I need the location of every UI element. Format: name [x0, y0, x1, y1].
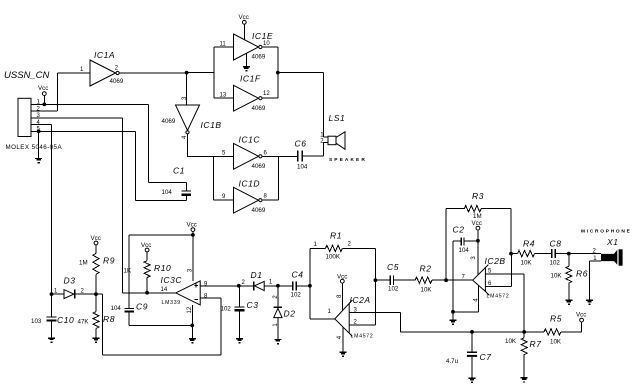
- amplifier IC2A: [310, 286, 374, 340]
- node junction pin5/ground: [37, 129, 41, 133]
- capacitor C1: [136, 104, 192, 200]
- ground R6: [565, 300, 572, 304]
- svg-text:C1: C1: [173, 166, 185, 176]
- svg-text:IC1B: IC1B: [201, 120, 222, 130]
- svg-text:104: 104: [459, 247, 470, 254]
- diode D1: [239, 270, 278, 291]
- svg-text:10K: 10K: [505, 338, 517, 345]
- wire bottom rail IC2A pin3 net: [401, 331, 544, 333]
- node junction C5/R1: [374, 278, 378, 282]
- resistor R2: [415, 263, 446, 293]
- node junction IC3C Vcc: [191, 233, 195, 237]
- inverter IC1F: [214, 74, 271, 113]
- wire IC3C pin3 lead: [192, 235, 194, 281]
- svg-text:X1: X1: [606, 237, 619, 247]
- svg-text:100K: 100K: [326, 253, 341, 260]
- resistor R7: [505, 332, 541, 378]
- ground C7: [469, 378, 476, 382]
- node junction C4/R1/IC2A: [308, 284, 312, 288]
- node junction R7/pin5: [522, 330, 526, 334]
- node junction IC1A out / IC1B in: [185, 71, 189, 75]
- capacitor C5: [375, 262, 415, 293]
- ground IC3C: [189, 325, 196, 342]
- wire R1 right to C5 node and IC2A pin2: [374, 248, 376, 325]
- svg-text:MOLEX 5046-05A: MOLEX 5046-05A: [6, 144, 63, 151]
- inverter IC1E: [214, 31, 273, 61]
- svg-text:4069: 4069: [110, 78, 124, 85]
- svg-text:4069: 4069: [252, 163, 266, 170]
- ground IC2A: [337, 327, 347, 356]
- node junction C2/Vcc: [476, 239, 480, 243]
- svg-text:Vcc: Vcc: [239, 14, 249, 21]
- svg-text:IC2A: IC2A: [350, 295, 371, 305]
- svg-text:MICROPHONE: MICROPHONE: [581, 229, 632, 235]
- wire input bus IC1E/IC1F: [213, 47, 215, 98]
- node junction pin4/D3: [50, 292, 54, 296]
- svg-text:104: 104: [111, 305, 122, 312]
- power Vcc IC3C pin3: [187, 221, 197, 235]
- microphone X1: [569, 229, 632, 300]
- inverter IC1C: [222, 135, 268, 171]
- node junction C8/R6/X1: [567, 252, 571, 256]
- svg-text:102: 102: [291, 291, 302, 298]
- svg-text:C10: C10: [57, 315, 74, 325]
- wire pin5 to C1 bottom: [31, 131, 136, 200]
- svg-text:10K: 10K: [521, 260, 533, 267]
- ground C10: [48, 338, 55, 342]
- svg-text:C2: C2: [453, 224, 465, 234]
- power Vcc connector pin1: [38, 85, 48, 105]
- svg-text:11: 11: [220, 41, 227, 47]
- ground IC2B: [452, 312, 454, 320]
- node junction pin1/Vcc: [42, 103, 46, 107]
- power Vcc IC2B: [472, 220, 482, 241]
- wire pin3 to IC3C output: [31, 118, 123, 293]
- svg-text:10K: 10K: [421, 286, 433, 293]
- svg-text:C9: C9: [136, 302, 148, 312]
- svg-text:D2: D2: [284, 309, 296, 319]
- ground R7: [521, 378, 528, 382]
- svg-text:13: 13: [220, 92, 227, 98]
- svg-text:4069: 4069: [252, 105, 266, 112]
- node junction C7: [470, 330, 474, 334]
- amplifier IC2B: [471, 256, 509, 302]
- resistor R8: [78, 294, 115, 338]
- wire pin1 Vcc rail to C1: [31, 103, 148, 105]
- svg-text:IC1A: IC1A: [94, 50, 115, 60]
- svg-text:C3: C3: [247, 300, 259, 310]
- resistor R3: [446, 191, 511, 280]
- svg-text:R6: R6: [576, 268, 588, 278]
- wire IC2A pin3 to bottom rail: [349, 313, 401, 332]
- svg-text:C4: C4: [292, 269, 304, 279]
- svg-text:4.7u: 4.7u: [446, 358, 459, 365]
- ground X1: [586, 300, 593, 304]
- svg-text:C8: C8: [550, 238, 562, 248]
- ground IC1E: [243, 53, 250, 71]
- wire branch to IC1D input: [213, 156, 233, 200]
- node junction pin9/C3: [237, 284, 241, 288]
- svg-text:LM4572: LM4572: [351, 333, 374, 339]
- svg-text:IC3C: IC3C: [161, 275, 183, 285]
- power Vcc IC2A: [337, 273, 347, 310]
- power Vcc IC1E: [239, 14, 249, 40]
- comparator IC3C LM339: [161, 275, 201, 306]
- capacitor C4: [278, 269, 310, 298]
- svg-text:Vcc: Vcc: [38, 85, 48, 92]
- capacitor C2: [453, 224, 478, 311]
- inverter IC1B: [162, 73, 222, 139]
- resistor R9: [79, 235, 115, 294]
- svg-text:10: 10: [263, 41, 270, 47]
- svg-text:D1: D1: [251, 270, 263, 280]
- resistor R4: [511, 238, 551, 266]
- wire to speaker LS1 pin1: [278, 73, 328, 138]
- node junction R3/R4/pin6: [509, 252, 513, 256]
- resistor R10: [124, 242, 172, 293]
- diode D2: [273, 286, 296, 339]
- node junction C2 ground branch: [451, 310, 455, 314]
- svg-text:102: 102: [221, 305, 232, 312]
- svg-text:104: 104: [297, 163, 308, 170]
- svg-text:R9: R9: [103, 255, 115, 265]
- capacitor C10: [31, 294, 74, 338]
- wire to IC1E/IC1F input bus: [187, 72, 214, 74]
- wire to IC2B pin7: [446, 279, 473, 281]
- svg-text:10K: 10K: [551, 273, 563, 280]
- wire IC1F output: [262, 97, 278, 99]
- svg-text:Vcc: Vcc: [576, 311, 586, 318]
- wire IC2B pin5 to bottom rail: [485, 274, 524, 332]
- svg-text:Vcc: Vcc: [187, 221, 197, 228]
- svg-text:C7: C7: [480, 352, 492, 362]
- svg-text:12: 12: [263, 91, 270, 97]
- svg-text:D3: D3: [64, 275, 76, 285]
- wire IC1C output: [262, 155, 297, 157]
- svg-text:IC1C: IC1C: [239, 135, 261, 145]
- ground R8: [93, 338, 100, 342]
- svg-text:R4: R4: [523, 238, 535, 248]
- svg-text:1M: 1M: [79, 259, 88, 266]
- svg-text:4069: 4069: [252, 207, 266, 214]
- capacitor C9: [111, 302, 148, 326]
- power Vcc R5: [576, 311, 586, 332]
- svg-text:R10: R10: [154, 263, 171, 273]
- svg-text:R2: R2: [420, 263, 432, 273]
- wire IC2A pin2: [349, 324, 375, 326]
- wire IC2B ground lead: [453, 286, 479, 312]
- inverter IC1D: [222, 178, 268, 214]
- wire IC1E output: [262, 46, 278, 48]
- wire IC3C pin9 output net: [200, 285, 239, 287]
- wire pin2 to IC1A input: [31, 73, 58, 111]
- node junction pin12/ground: [190, 324, 194, 328]
- svg-text:12: 12: [187, 306, 193, 313]
- capacitor C8: [550, 238, 569, 266]
- svg-text:IC2B: IC2B: [485, 256, 506, 266]
- capacitor C7: [446, 332, 491, 378]
- diode D3: [52, 275, 97, 298]
- svg-text:LS1: LS1: [329, 113, 346, 123]
- wire IC3C pin12 lead: [191, 305, 193, 325]
- wire IC1A input from connector pin 2: [58, 72, 91, 74]
- wire joining IC1E/IC1F outputs: [277, 47, 279, 98]
- wire IC3C output: [123, 292, 176, 294]
- svg-text:IC1D: IC1D: [239, 178, 261, 188]
- node USSN_CN: [4, 70, 50, 81]
- svg-text:47K: 47K: [78, 318, 90, 325]
- wire C6 to speaker pin 2: [303, 142, 328, 156]
- svg-text:IC1E: IC1E: [252, 31, 273, 41]
- node junction R10 / IC3C out: [145, 291, 149, 295]
- svg-text:R8: R8: [103, 314, 115, 324]
- node junction outputs to speaker: [276, 71, 280, 75]
- node junction D1/D2/C4: [276, 284, 280, 288]
- ground C3: [236, 339, 243, 343]
- ground D2: [274, 340, 281, 344]
- svg-text:10K: 10K: [550, 338, 562, 345]
- svg-text:104: 104: [162, 189, 173, 196]
- capacitor C3: [221, 286, 259, 339]
- speaker LS1: [320, 113, 367, 163]
- svg-text:R5: R5: [550, 314, 562, 324]
- svg-text:R1: R1: [330, 231, 342, 241]
- svg-text:Vcc: Vcc: [472, 220, 482, 227]
- svg-text:USSN_CN: USSN_CN: [4, 70, 50, 81]
- wire IC2B Vcc lead: [477, 241, 479, 275]
- svg-text:14: 14: [161, 287, 168, 293]
- connector USSN_CN MOLEX: [6, 98, 63, 151]
- ground connector pin5: [35, 131, 42, 162]
- svg-text:103: 103: [31, 318, 42, 325]
- resistor R1: [310, 231, 376, 286]
- wire IC1D output: [262, 199, 278, 201]
- resistor R6: [551, 254, 588, 300]
- resistor R5: [544, 314, 582, 346]
- svg-text:R3: R3: [472, 191, 484, 201]
- svg-text:C5: C5: [387, 262, 399, 272]
- svg-text:SPEAKER: SPEAKER: [329, 157, 367, 163]
- svg-text:R7: R7: [530, 339, 542, 349]
- svg-text:IC1F: IC1F: [240, 74, 261, 84]
- svg-text:Vcc: Vcc: [141, 242, 151, 249]
- wire joining IC1C/IC1D outputs: [278, 156, 280, 200]
- svg-text:4069: 4069: [162, 118, 176, 125]
- wire Vcc to C9: [129, 235, 193, 308]
- wire IC2B pin6 to R3/R4: [485, 254, 511, 287]
- node junction R2/R3/IC2B pin7: [444, 278, 448, 282]
- svg-text:102: 102: [388, 286, 399, 293]
- capacitor C6: [295, 139, 308, 171]
- node junction D3/R9/R8: [94, 292, 98, 296]
- svg-text:4069: 4069: [252, 54, 266, 61]
- wire pin4 to D3: [31, 125, 52, 295]
- svg-text:1K: 1K: [124, 267, 132, 274]
- inverter IC1A: [80, 50, 124, 86]
- svg-text:LM4572: LM4572: [487, 293, 510, 299]
- svg-text:C6: C6: [295, 139, 307, 149]
- wire IC3C pin8 feedback: [96, 294, 221, 355]
- wire IC1B output: [188, 134, 234, 156]
- wire IC1A output: [120, 72, 187, 74]
- wire C9 to IC3C pin12 ground: [129, 324, 192, 326]
- svg-text:LM339: LM339: [162, 300, 181, 306]
- svg-text:102: 102: [550, 260, 561, 267]
